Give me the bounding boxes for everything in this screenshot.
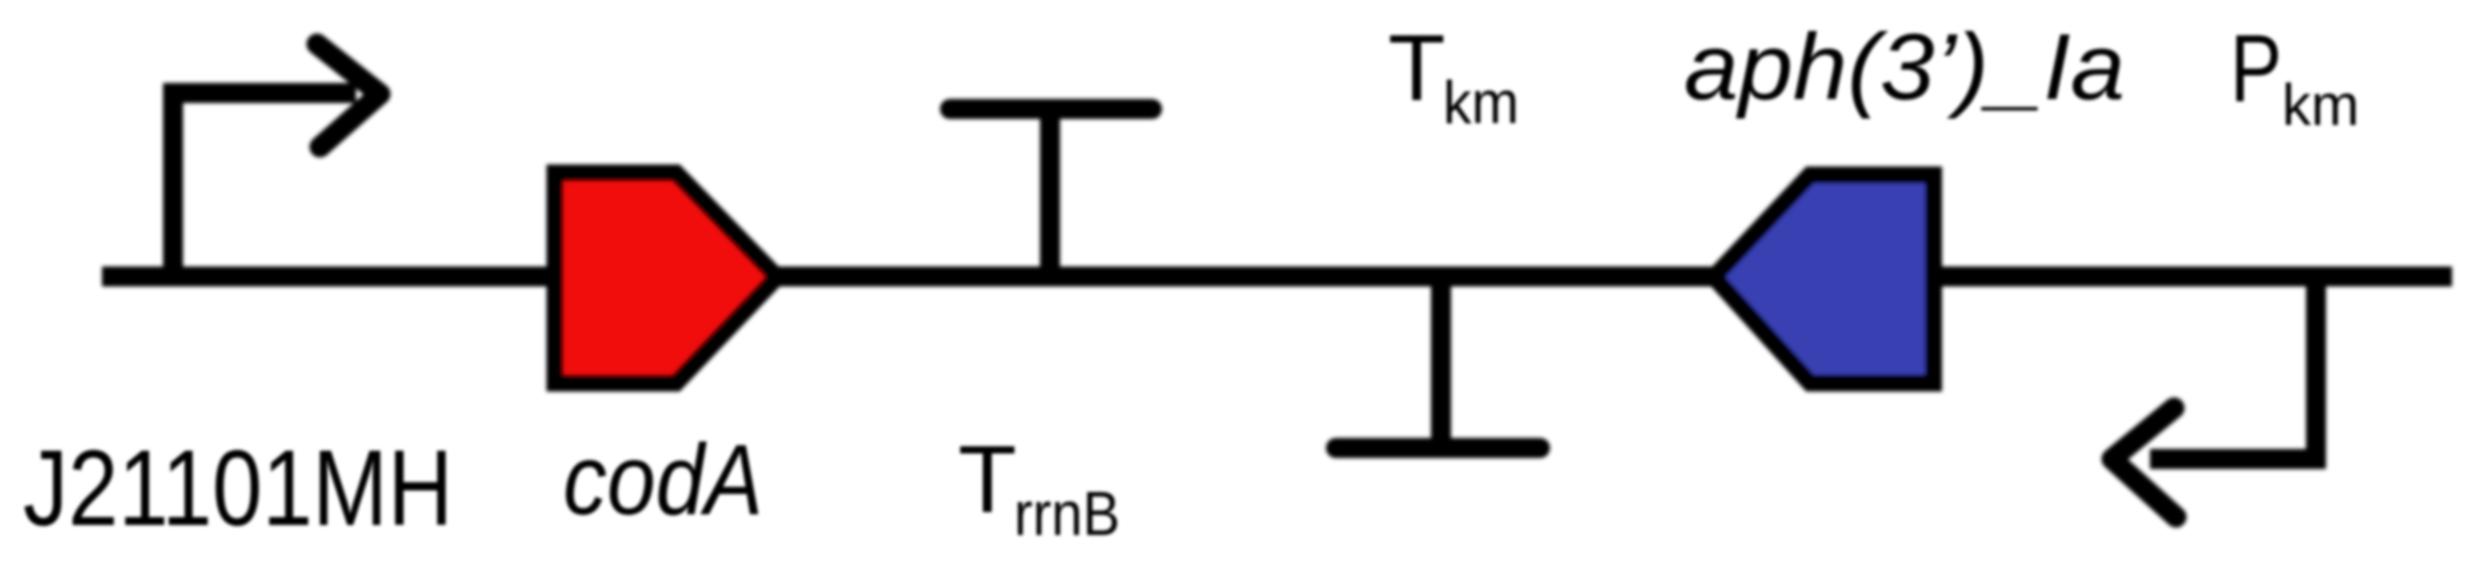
promoter J21101MH bent arrow bbox=[173, 93, 356, 280]
svg-text:km: km bbox=[2282, 73, 2359, 138]
terminator Tkm bar bbox=[1336, 438, 1540, 458]
promoter Pkm arrowhead bbox=[2112, 408, 2176, 517]
svg-text:rrnB: rrnB bbox=[1014, 480, 1120, 549]
svg-text:aph(3’)_Ia: aph(3’)_Ia bbox=[1684, 14, 2125, 119]
svg-text:P: P bbox=[2230, 15, 2282, 122]
svg-text:T: T bbox=[958, 426, 1017, 533]
terminator TrrnB bar bbox=[950, 99, 1152, 119]
CDS aph(3')_Ia blue pentagon reverse bbox=[1714, 175, 1934, 383]
svg-text:codA: codA bbox=[563, 424, 763, 536]
promoter Pkm reverse bent arrow bbox=[2150, 272, 2316, 459]
svg-text:T: T bbox=[1388, 15, 1445, 120]
promoter J21101MH arrowhead bbox=[317, 44, 380, 147]
backbone wire bbox=[102, 267, 2452, 287]
terminator Tkm stem bbox=[1431, 276, 1451, 448]
svg-text:J21101MH: J21101MH bbox=[23, 427, 453, 548]
terminator TrrnB stem bbox=[1040, 109, 1060, 276]
CDS codA red pentagon bbox=[555, 173, 777, 383]
svg-text:km: km bbox=[1443, 69, 1519, 136]
